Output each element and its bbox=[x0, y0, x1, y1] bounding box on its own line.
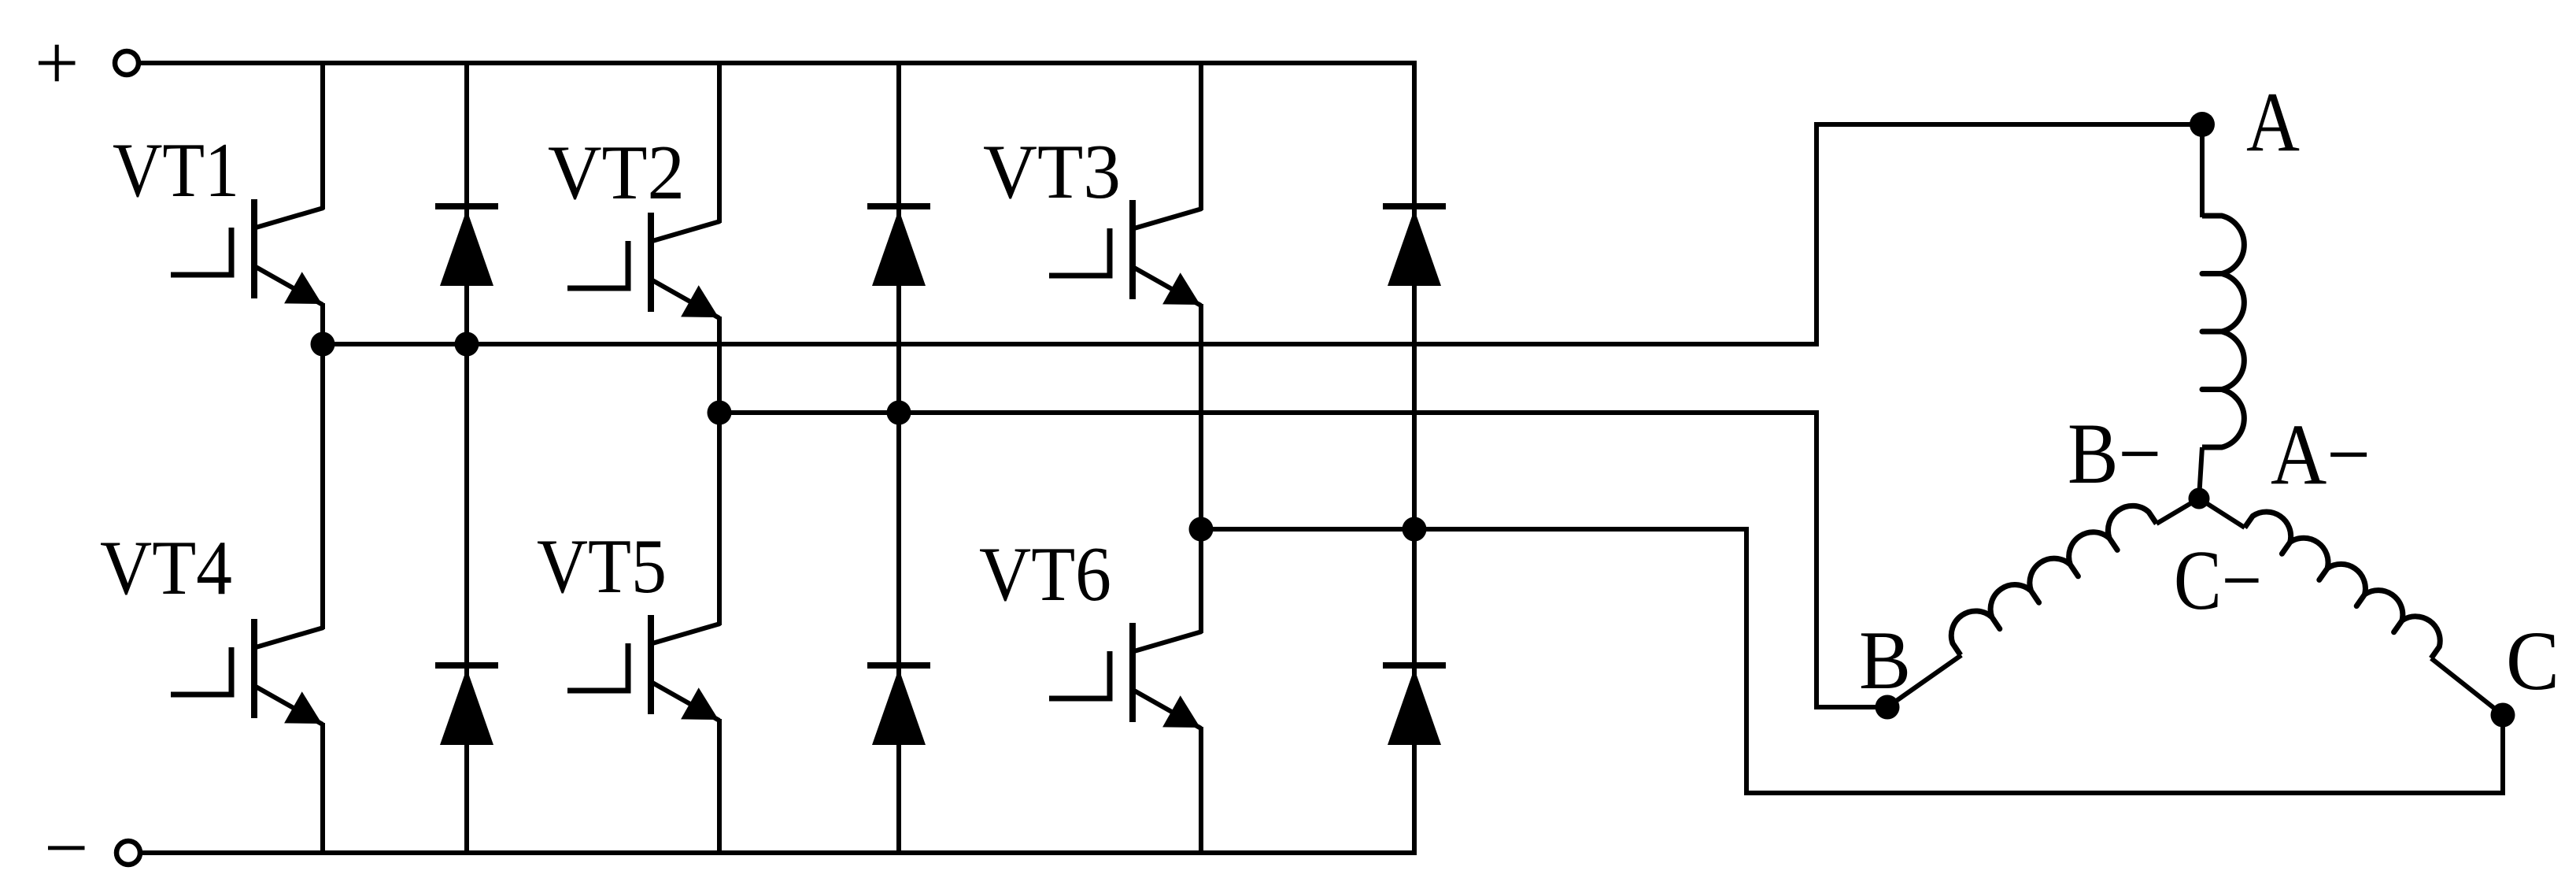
wire phase A output bbox=[323, 124, 2200, 344]
transistor VT2 bbox=[567, 213, 720, 318]
label VT6 bbox=[979, 532, 1111, 617]
wire VT3 emitter to VT6 collector bbox=[1199, 304, 1203, 633]
wire winding C to node C bbox=[2431, 658, 2503, 715]
diode VD4 (lower leg 1) bbox=[435, 665, 498, 745]
label C- winding end bbox=[2174, 534, 2262, 628]
wire node A to winding bbox=[2200, 124, 2205, 217]
plus terminal label bbox=[35, 19, 79, 106]
svg-text:+: + bbox=[35, 19, 79, 106]
svg-text:VT3: VT3 bbox=[983, 129, 1121, 215]
transistor VT3 bbox=[1049, 200, 1202, 306]
wire diode leg 1 bbox=[464, 61, 469, 855]
junction leg3 diode / phase C bbox=[1403, 517, 1427, 542]
wire VT3 collector bbox=[1199, 61, 1203, 210]
svg-text:−: − bbox=[44, 804, 88, 878]
wire diode leg 2 bbox=[896, 61, 901, 855]
node B terminal bbox=[1876, 695, 1900, 720]
node C terminal bbox=[2491, 703, 2515, 728]
diode VD5 (lower leg 2) bbox=[867, 665, 930, 745]
wire node B lead bbox=[1887, 655, 1961, 707]
svg-text:A−: A− bbox=[2271, 406, 2371, 502]
svg-text:B−: B− bbox=[2068, 406, 2161, 502]
wire VT1 emitter to VT4 collector bbox=[320, 303, 325, 629]
wire VT6 emitter to bottom rail bbox=[1199, 727, 1203, 855]
diode VD6 (lower leg 3) bbox=[1383, 665, 1446, 745]
label VT4 bbox=[100, 525, 232, 611]
wire bottom DC rail bbox=[140, 850, 1414, 855]
label VT3 bbox=[983, 129, 1121, 215]
star point node bbox=[2189, 488, 2210, 509]
svg-text:A: A bbox=[2246, 76, 2300, 169]
wire VT4 emitter to bottom rail bbox=[320, 723, 325, 855]
label VT2 bbox=[548, 130, 685, 216]
label B- winding end bbox=[2068, 406, 2161, 502]
inductor winding C-phase bbox=[2245, 512, 2440, 658]
svg-text:C−: C− bbox=[2174, 534, 2262, 628]
transistor VT6 bbox=[1049, 623, 1202, 728]
wire phase B output bbox=[719, 413, 1887, 707]
junction leg1 diode / phase A bbox=[455, 332, 479, 357]
label VT5 bbox=[537, 524, 667, 609]
svg-text:B: B bbox=[1859, 614, 1911, 706]
svg-text:VT5: VT5 bbox=[537, 524, 667, 609]
positive DC input terminal bbox=[115, 51, 139, 75]
wire phase C output bbox=[1201, 529, 2503, 793]
negative DC input terminal bbox=[116, 841, 140, 865]
svg-text:VT6: VT6 bbox=[979, 532, 1111, 617]
minus terminal label bbox=[44, 804, 88, 878]
transistor VT5 bbox=[567, 615, 720, 721]
label VT1 bbox=[113, 128, 239, 213]
svg-text:VT2: VT2 bbox=[548, 130, 685, 216]
svg-text:VT1: VT1 bbox=[113, 128, 239, 213]
wire VT1 collector bbox=[320, 61, 325, 209]
label node A bbox=[2246, 76, 2300, 169]
transistor VT4 bbox=[171, 619, 323, 724]
svg-text:C: C bbox=[2506, 615, 2559, 708]
junction leg3 IGBT / phase C bbox=[1189, 517, 1214, 542]
wire winding B to star point bbox=[2157, 498, 2199, 524]
diode VD3 (upper leg 3) bbox=[1383, 206, 1446, 286]
wire VT2 collector bbox=[717, 61, 722, 223]
junction leg2 IGBT / phase B bbox=[708, 401, 732, 425]
wire star point to winding C bbox=[2199, 498, 2245, 528]
node A terminal bbox=[2190, 112, 2215, 137]
svg-text:VT4: VT4 bbox=[100, 525, 232, 611]
inductor winding B-phase bbox=[1951, 506, 2157, 655]
label node C bbox=[2506, 615, 2559, 708]
wire top DC rail bbox=[139, 61, 1417, 65]
label node B bbox=[1859, 614, 1911, 706]
wire diode leg 3 bbox=[1412, 61, 1417, 855]
transistor VT1 bbox=[171, 199, 323, 305]
inductor winding A-phase bbox=[2202, 216, 2244, 447]
label A- winding end bbox=[2271, 406, 2371, 502]
junction leg1 IGBT / phase A bbox=[311, 332, 335, 357]
junction leg2 diode / phase B bbox=[887, 401, 911, 425]
wire VT5 emitter to bottom rail bbox=[717, 719, 722, 855]
diode VD2 (upper leg 2) bbox=[867, 206, 930, 286]
wire winding A to star point bbox=[2199, 447, 2202, 498]
wire VT2 emitter to VT5 collector bbox=[717, 317, 722, 625]
diode VD1 (upper leg 1) bbox=[435, 206, 498, 286]
